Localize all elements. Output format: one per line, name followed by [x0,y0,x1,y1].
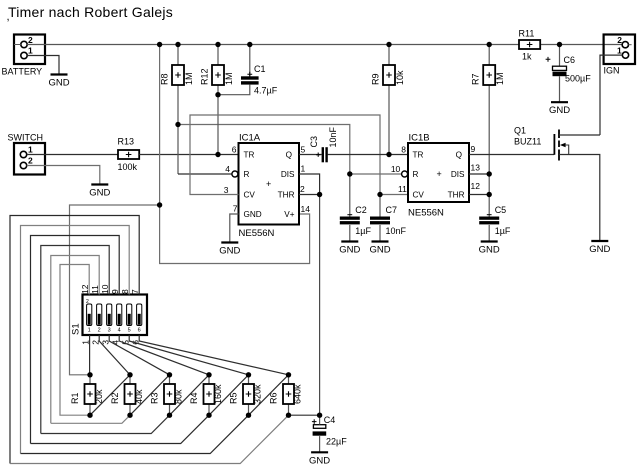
switch S1 slider 6 [137,304,142,334]
wire S1 pin 6 to R6 top [139,335,288,375]
svg-text:5: 5 [128,328,131,334]
svg-text:S1: S1 [71,323,82,335]
wire R3 bottom to R4 top chain [170,375,210,415]
svg-text:100k: 100k [118,162,138,172]
wire S1 pin 3 to R3 top [109,335,169,375]
svg-text:SWITCH: SWITCH [8,133,44,143]
junction rail / R7 [487,42,492,47]
svg-text:THR: THR [278,191,295,200]
svg-text:R11: R11 [519,29,535,39]
svg-text:R1: R1 [70,392,80,404]
pin 10 IC1B with bubble [402,171,408,177]
wire C1 bottom to R12 [218,85,250,95]
svg-text:3: 3 [108,328,111,334]
svg-text:R12: R12 [200,68,210,85]
switch S1 slider 3 [107,304,112,334]
wire IC1A THR pin2 [299,194,320,196]
svg-text:,: , [7,11,10,23]
svg-text:R7: R7 [471,73,481,85]
svg-text:14: 14 [301,204,311,214]
svg-text:V+: V+ [284,210,294,219]
ground IC1A [219,243,240,257]
switch S1 slider 2 [97,304,102,334]
resistor R4 [189,384,223,404]
svg-text:+: + [266,179,271,189]
wire R2 leads [129,375,131,384]
svg-text:DIS: DIS [451,170,465,179]
junction R2 bottom [127,413,132,418]
wire R7 leads [488,45,490,66]
switch S1 slider 4 [117,304,122,334]
svg-text:R: R [244,170,250,179]
wire S1 pin 11 return bus to R2 bottom [51,256,99,424]
wire S1 pin 4 to R4 top [119,335,209,375]
svg-text:12: 12 [471,181,481,191]
junction R1 bottom [87,413,92,418]
resistor R12 [200,65,235,85]
wire R3 leads [169,375,171,384]
ground C7 [369,225,390,256]
wire reset line to IC1B pin 10 [178,125,402,175]
capacitor C5 [479,205,511,236]
junction reset net / R8 [175,122,180,127]
svg-text:1: 1 [88,328,91,334]
svg-text:10k: 10k [395,70,405,85]
svg-text:5: 5 [301,145,306,155]
wire IC1A Q pin5 to C3 [299,154,322,156]
svg-text:TR: TR [244,150,255,159]
wire S1 pin 12 return bus to R1 bottom [60,265,90,416]
junction R6 top [286,372,291,377]
capacitor C2 [340,205,372,236]
wire switch pin2 to ground [27,166,100,185]
svg-text:6: 6 [138,328,141,334]
svg-text:R8: R8 [160,73,170,85]
wire R2 bottom to R3 top chain [130,375,170,415]
resistor R6 [269,384,303,404]
svg-text:IC1A: IC1A [239,133,261,144]
svg-text:3: 3 [224,185,229,195]
capacitor C3 [309,126,338,162]
wire R6 leads [288,375,290,384]
junction rail / C6 [557,42,562,47]
svg-text:C7: C7 [386,205,398,215]
svg-text:GND: GND [244,210,262,219]
svg-text:11: 11 [398,184,407,194]
svg-text:2: 2 [28,35,33,45]
svg-text:1: 1 [617,46,622,56]
svg-text:10: 10 [391,164,401,174]
svg-text:GND: GND [89,188,110,199]
ground C4 [309,436,330,466]
svg-text:2: 2 [28,156,33,166]
wire Q1 source to ground [559,155,600,241]
resistor R3 [150,384,184,404]
svg-text:GND: GND [369,245,390,256]
svg-text:CV: CV [244,191,256,200]
svg-text:8: 8 [401,145,406,155]
svg-text:Q1: Q1 [514,126,526,136]
svg-text:11: 11 [90,285,100,294]
svg-text:C6: C6 [564,55,576,65]
svg-text:13: 13 [471,163,481,173]
wire R1 leads [89,375,91,384]
svg-text:GND: GND [339,245,360,256]
capacitor C7 [370,205,407,236]
wire R4 bottom to R5 top chain [209,375,249,415]
svg-text:Timer nach Robert Galejs: Timer nach Robert Galejs [8,4,173,20]
svg-text:9: 9 [471,144,476,154]
junction reset / C2 / pin10 [347,171,352,176]
junction C4 node [317,413,322,418]
junction R2 top [127,372,132,377]
junction R4 bottom [206,413,211,418]
resistor R8 [160,65,195,85]
svg-text:640k: 640k [293,384,303,404]
svg-text:160k: 160k [213,384,223,404]
svg-text:R9: R9 [371,73,381,85]
svg-text:2: 2 [300,184,305,194]
svg-text:6: 6 [232,145,237,155]
wire V+ branch to resistor ladder [70,205,160,375]
resistor R1 [70,384,104,404]
wire IC1A GND pin to ground [230,214,239,242]
wire R12 leads [217,45,219,66]
ground C2 [339,225,360,256]
wire R5 leads [248,375,250,384]
wire R8 bottom to IC1A pin 4 [178,173,232,175]
wire THR node drop to C4 [319,195,321,416]
svg-text:4.7µF: 4.7µF [254,86,278,96]
svg-text:22µF: 22µF [326,437,347,447]
junction CV / C7 [377,192,382,197]
pin 4 IC1A with bubble [232,171,238,177]
svg-text:9: 9 [110,289,120,294]
wire S1 pin 7 return bus to R6 bottom [10,216,139,464]
op-amp U2 IC1B NE556N box [408,133,469,219]
junction rail / V+ drop [157,42,162,47]
svg-text:1M: 1M [184,72,194,85]
svg-text:GND: GND [479,245,500,256]
wire R5 bottom to R6 top chain [249,375,289,415]
op-amp U1 IC1A NE556N box [239,133,300,240]
resistor R11 [519,29,541,62]
svg-text:1k: 1k [522,52,532,62]
wire C6 top lead [559,45,561,67]
ground Q1 source [589,241,610,255]
svg-text:+: + [437,169,442,179]
wire V+ rail battery to R11 [27,44,519,46]
svg-text:1: 1 [28,145,33,155]
wire S1 pin 5 to R5 top [129,335,248,375]
svg-text:1M: 1M [495,72,505,85]
junction R6 bottom [286,413,291,418]
junction R3 bottom [167,413,172,418]
capacitor C4 [312,415,347,447]
wire S1 pin 1 to R1 top [89,335,91,375]
wire C3 to IC1B TR pin 8 [328,154,409,156]
junction R4 top [206,372,211,377]
svg-text:1M: 1M [224,72,234,85]
svg-text:C4: C4 [324,415,336,425]
junction R9 / IC1B TR [386,152,391,157]
wire IC1B DIS pin13 to R7 net [469,173,489,175]
svg-text:GND: GND [549,105,570,116]
wire R4 leads [208,375,210,384]
ground switch [89,185,110,199]
ground C6 [549,76,570,116]
svg-text:GND: GND [309,455,330,466]
svg-text:NE556N: NE556N [239,228,275,239]
junction rail / R8 [175,42,180,47]
svg-text:1µF: 1µF [355,226,371,236]
junction R7 / pin13 [487,171,492,176]
wire S1 pin 8 return bus to R5 bottom [21,226,130,454]
junction rail / C1 [247,42,252,47]
junction THR DIS node [317,192,322,197]
svg-text:C2: C2 [355,205,367,215]
svg-text:C1: C1 [254,64,266,74]
junction R7 / pin12 [487,192,492,197]
svg-text:GND: GND [219,246,240,257]
wire R8 leads [177,45,179,66]
wire S1 pin 10 return bus to R3 bottom [41,246,109,434]
wire Q1 drain to IGN [559,134,600,136]
svg-text:7: 7 [130,289,140,294]
junction R3 top [167,372,172,377]
wire R1 bottom to R2 top chain [90,375,130,415]
svg-text:GND: GND [48,78,69,89]
wire S1 pin 2 to R2 top [99,335,130,375]
svg-text:Q: Q [286,150,292,159]
svg-text:DIS: DIS [281,170,295,179]
svg-text:500µF: 500µF [565,74,591,84]
junction R12 / C1 [215,92,220,97]
resistor R5 [229,384,263,404]
wire R6 bottom to C4 node [289,414,320,416]
junction R5 top [246,372,251,377]
junction rail / R12 [215,42,220,47]
wire IC1A DIS pin1 to THR pin2 [299,174,320,195]
wire CV net IC1A pin3 to IC1B pin11 [190,115,408,195]
connector BATTERY [2,35,46,77]
connector IGN [604,35,636,76]
wire R9 leads [388,45,390,66]
capacitor C6 [546,55,592,84]
svg-text:1µF: 1µF [495,226,511,236]
svg-text:Q: Q [456,150,462,159]
svg-text:2: 2 [98,328,101,334]
svg-text:R: R [413,170,419,179]
svg-text:4: 4 [225,164,230,174]
ground C5 [479,225,500,256]
transistor Q1 BUZ11 [514,126,569,161]
svg-text:IC1B: IC1B [409,133,430,144]
svg-text:C5: C5 [495,205,507,215]
wire IC1B Q pin9 to Q1 gate [469,154,554,156]
svg-text:C3: C3 [309,136,319,148]
wire C7 stub [379,195,381,217]
switch S1 slider 5 [127,304,132,334]
wire R13 to IC1A TR pin 6 [139,154,238,156]
svg-text:10nF: 10nF [328,126,338,147]
resistor R13 [118,137,140,173]
svg-text:1: 1 [80,340,90,345]
wire battery pin1 to ground [27,56,59,75]
svg-text:R13: R13 [118,137,135,147]
ground battery [48,75,69,89]
resistor R7 [471,65,506,85]
wire C2 stub [349,174,351,217]
switch S1 slider 1 [87,304,92,334]
svg-text:TR: TR [413,150,424,159]
svg-text:THR: THR [448,191,465,200]
wire C1 top lead [249,45,251,77]
svg-text:CV: CV [413,191,425,200]
connector SWITCH [8,133,46,175]
capacitor C1 [241,64,278,96]
svg-text:12: 12 [80,284,90,294]
switch S1 DIP-6 box [71,295,148,336]
svg-text:IGN: IGN [604,66,620,76]
svg-text:NE556N: NE556N [408,208,444,219]
svg-text:7: 7 [233,204,238,214]
svg-text:GND: GND [589,244,610,255]
resistor R2 [110,384,144,404]
svg-text:8: 8 [120,289,130,294]
svg-text:1: 1 [28,46,33,56]
junction rail / R9 [386,42,391,47]
wire IC1B THR pin12 to R7 net [469,194,489,196]
svg-text:BATTERY: BATTERY [2,67,43,77]
svg-text:4: 4 [118,328,121,334]
svg-text:10: 10 [100,284,110,294]
wire IGN pin1 to Q1 drain [600,55,622,135]
svg-text:BUZ11: BUZ11 [514,137,541,147]
junction TR net [215,152,220,157]
wire S1 pin 9 return bus to R4 bottom [31,236,120,444]
svg-text:10nF: 10nF [386,226,407,236]
junction R5 bottom [246,413,251,418]
svg-text:1: 1 [301,164,306,174]
junction V+ branch [157,202,162,207]
wire switch pin1 to R13 [27,154,118,156]
wire V+ drop to pin 14 route [160,45,310,264]
resistor R9 [371,65,406,85]
wire V+ rail R11 to IGN [540,44,622,46]
svg-text:320k: 320k [253,384,263,404]
svg-text:2: 2 [617,35,622,45]
junction R1 top [87,372,92,377]
